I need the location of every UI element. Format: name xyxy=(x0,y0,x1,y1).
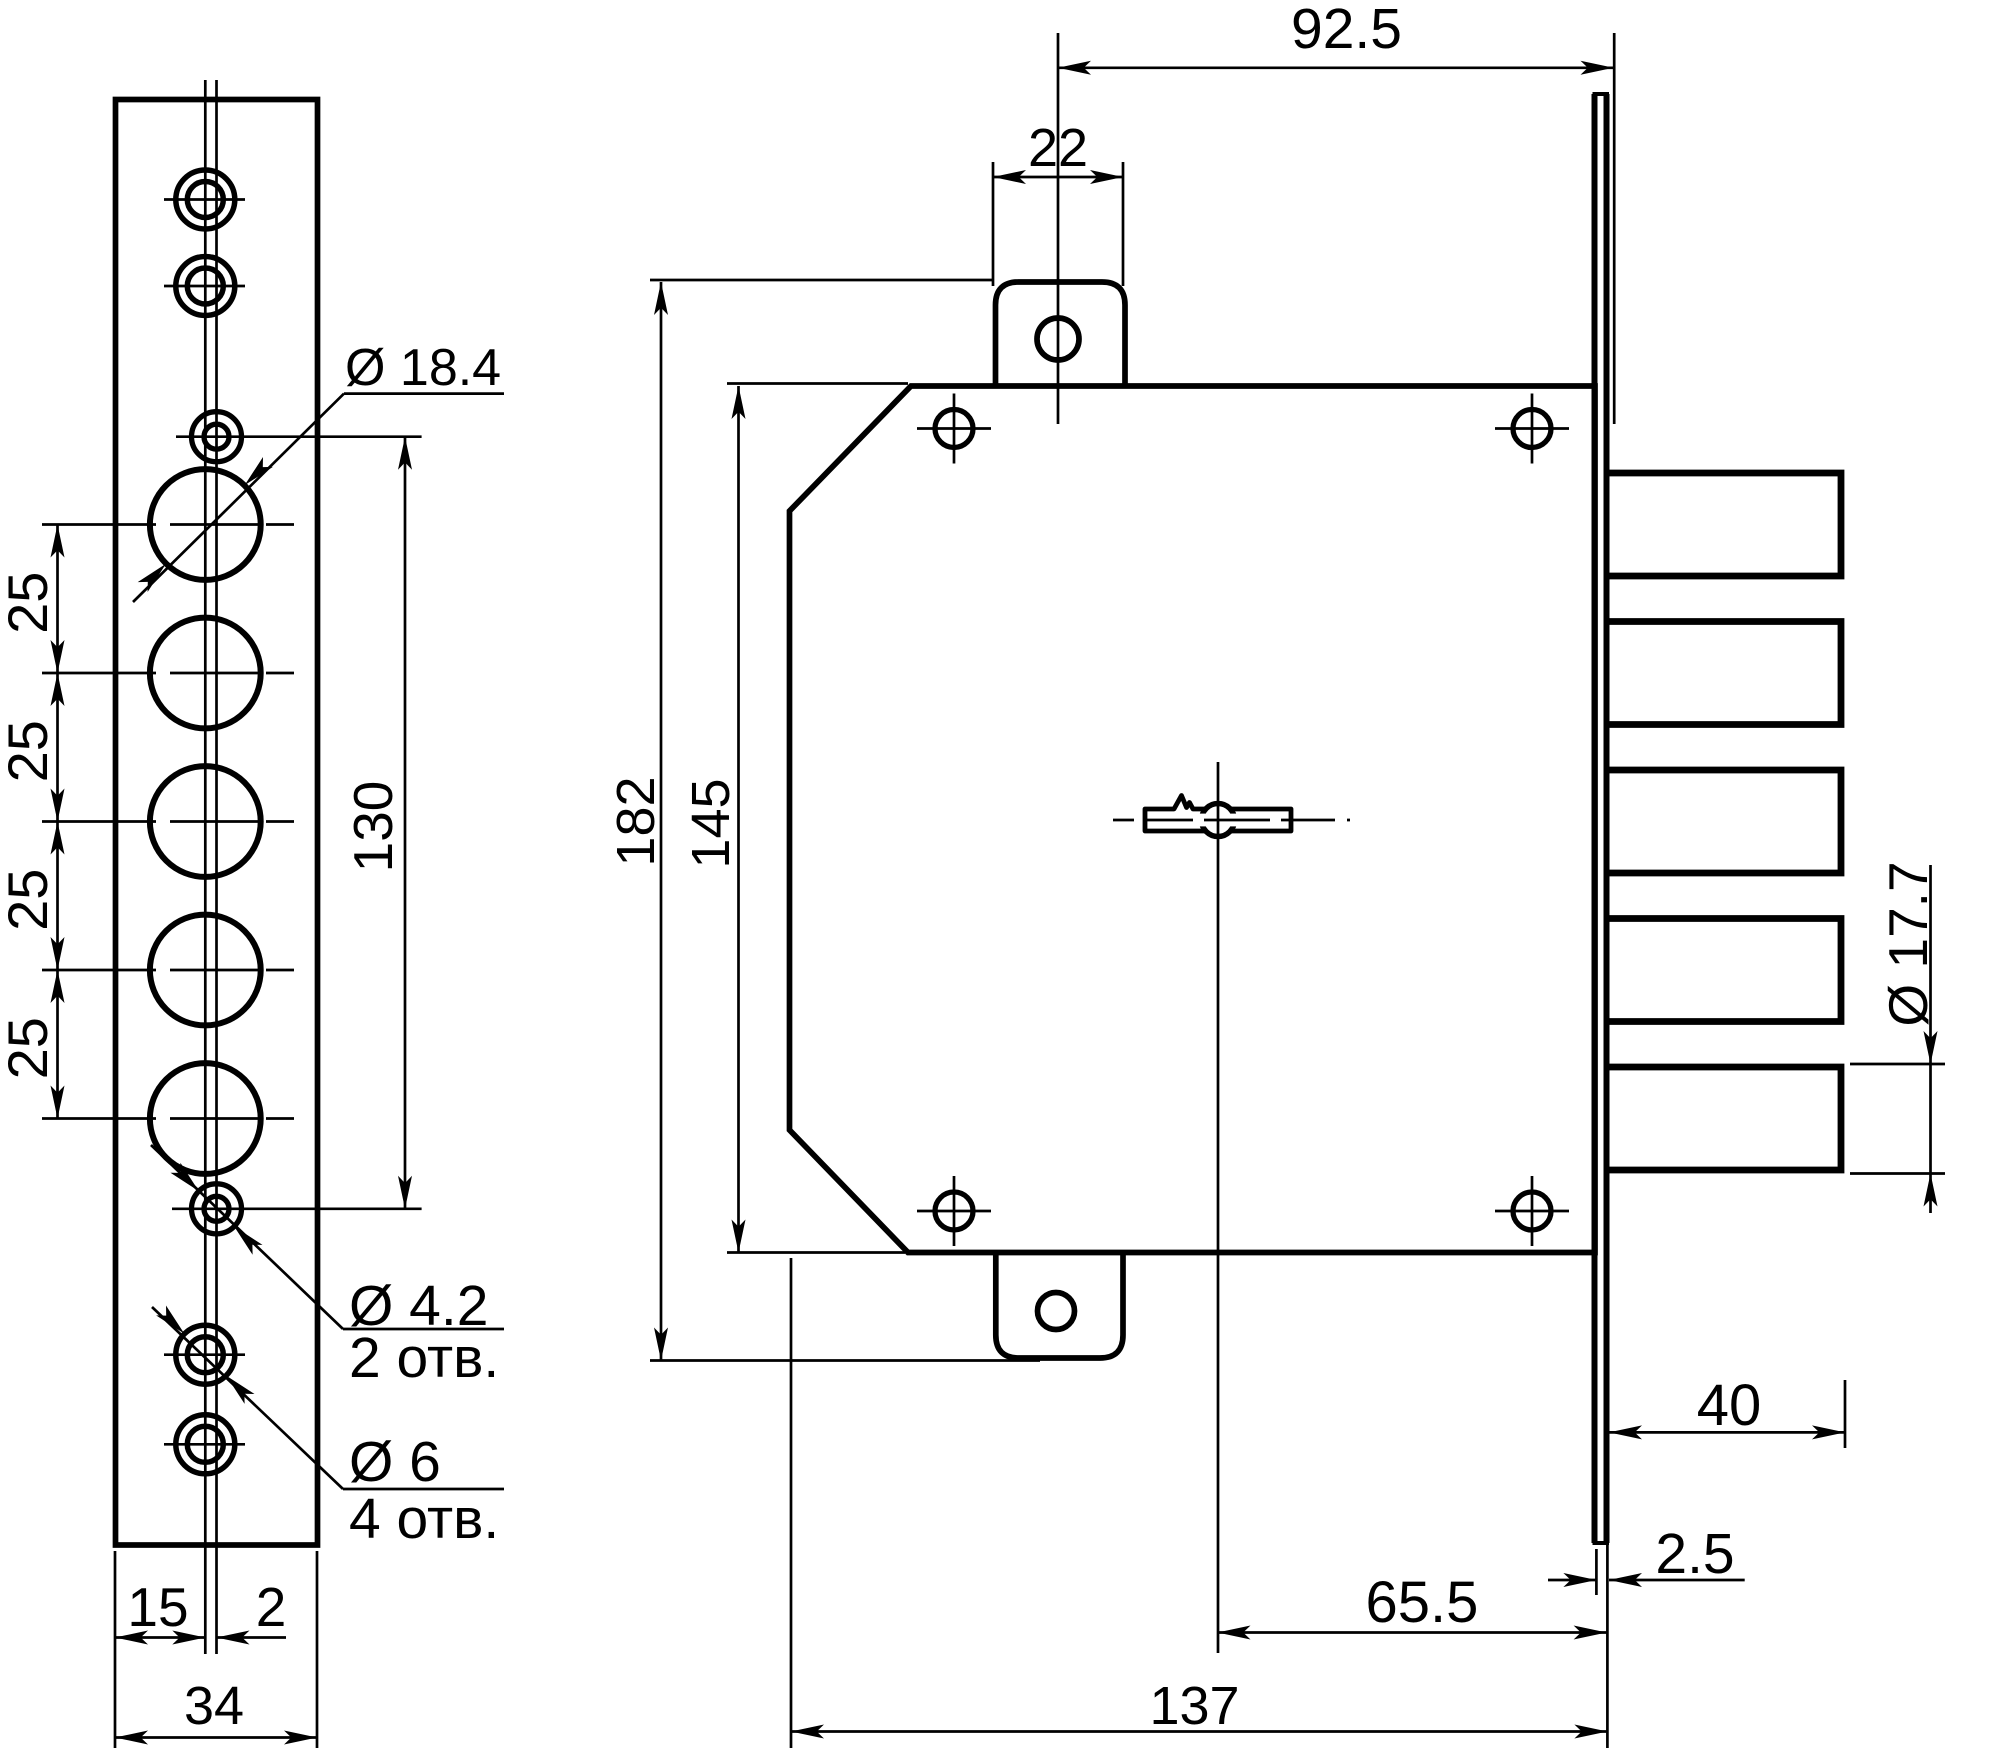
keyhole slot band through circle xyxy=(1196,814,1240,827)
deadbolt #3 xyxy=(1609,770,1841,873)
dim 22 line xyxy=(993,176,1123,179)
bottom mounting tab xyxy=(996,1253,1123,1359)
svg-text:92.5: 92.5 xyxy=(1291,0,1402,61)
svg-text:Ø 17.7: Ø 17.7 xyxy=(1877,861,1939,1026)
top tab hole xyxy=(1037,318,1079,360)
dim 145 arrows xyxy=(732,386,746,419)
hole O6 #4 center tick xyxy=(164,1443,245,1446)
dim O17.7 arrows xyxy=(1924,1031,1938,1064)
dim 22 ext lines xyxy=(992,162,995,286)
dim 15 arrows xyxy=(115,1631,148,1645)
svg-text:Ø 6: Ø 6 xyxy=(349,1430,441,1494)
svg-text:25: 25 xyxy=(0,869,59,931)
screw hole cross #4 xyxy=(1495,1210,1569,1213)
dim 2.5 arrows and tails xyxy=(1548,1579,1596,1582)
dim 22 arrows xyxy=(993,170,1026,184)
bolt hole O18.4 #2 xyxy=(150,618,261,729)
svg-text:22: 22 xyxy=(1028,118,1088,178)
screw hole cross #2 xyxy=(1495,427,1569,430)
faceplate strip right edge xyxy=(1604,94,1610,1543)
hole O6 #1 inner circle xyxy=(187,182,223,218)
dim 34 line xyxy=(115,1736,317,1739)
hole O6 #3 countersink outer circle xyxy=(176,1325,235,1384)
leader O4.2 arrows xyxy=(171,1163,199,1191)
dim 182 line xyxy=(660,282,663,1361)
svg-text:2: 2 xyxy=(256,1576,287,1638)
screw hole circle #2 xyxy=(1513,410,1551,448)
svg-text:2 отв.: 2 отв. xyxy=(349,1326,499,1390)
keyhole circle xyxy=(1202,804,1235,837)
dim 65.5 line xyxy=(1218,1631,1607,1634)
leader O18.4 arrows xyxy=(245,457,273,485)
svg-text:182: 182 xyxy=(606,776,666,866)
svg-text:2.5: 2.5 xyxy=(1655,1522,1734,1586)
top mounting tab xyxy=(996,282,1126,386)
deadbolt #5 xyxy=(1609,1067,1841,1170)
hole O6 #4 inner circle xyxy=(187,1426,223,1462)
svg-text:145: 145 xyxy=(681,778,741,868)
keyhole vertical axis line xyxy=(1217,762,1220,1653)
bolt hole #5 center dash-dot line xyxy=(42,1117,294,1120)
dim O17.7 ext lines xyxy=(1850,1063,1945,1066)
svg-text:65.5: 65.5 xyxy=(1366,1570,1479,1635)
hole O6 #2 center tick xyxy=(164,285,245,288)
dim 137 left ext line xyxy=(790,1258,793,1748)
dim 25 chain line xyxy=(56,525,59,1119)
bolt hole O18.4 #5 xyxy=(150,1063,261,1174)
hole O6 #3 inner circle xyxy=(187,1337,223,1373)
ext line left plate bottom xyxy=(114,1551,117,1748)
hole O6 #1 center tick xyxy=(164,198,245,201)
dim 130 line xyxy=(404,437,407,1209)
hole O6 #3 center tick xyxy=(164,1353,245,1356)
dim 92.5 right ext line xyxy=(1613,33,1616,424)
screw hole circle #3 xyxy=(935,1192,973,1230)
svg-text:40: 40 xyxy=(1697,1373,1762,1438)
hole O6 #2 inner circle xyxy=(187,268,223,304)
dim 65.5 arrows xyxy=(1218,1626,1251,1640)
dim 2.5 right ext line xyxy=(1606,1543,1609,1748)
left view: bolt-holes axis line (15 mm from edge) xyxy=(204,80,207,1654)
dim 92.5 arrows xyxy=(1058,61,1091,75)
dim 137 line xyxy=(791,1730,1607,1733)
label O4.2 underline xyxy=(343,1328,504,1331)
screw hole circle #1 xyxy=(935,410,973,448)
leader O6 line xyxy=(152,1307,343,1489)
faceplate strip top cap xyxy=(1593,92,1610,96)
label O18.4 underline xyxy=(344,392,504,395)
dim 15 line xyxy=(115,1636,205,1639)
dim 40 ext line xyxy=(1844,1380,1847,1448)
keyhole horizontal dash-dot line xyxy=(1113,819,1350,822)
leader O18.4 diameter line xyxy=(133,394,344,602)
bolt hole O18.4 #3 xyxy=(150,766,261,877)
hole O4.2 #2 countersink outer circle xyxy=(192,1184,242,1234)
hole O6 #4 countersink outer circle xyxy=(176,1415,235,1474)
dim 130 arrows xyxy=(398,437,412,470)
hole O4.2 #2 center line (extension for 130 dim) xyxy=(172,1207,422,1210)
svg-text:4 отв.: 4 отв. xyxy=(349,1487,499,1551)
screw hole cross #1 xyxy=(917,427,991,430)
screw hole circle #4 xyxy=(1513,1192,1551,1230)
screw hole cross #3 xyxy=(917,1210,991,1213)
bolt hole #1 center dash-dot line xyxy=(42,523,294,526)
hole O6 #1 countersink outer circle xyxy=(176,170,235,229)
left view: faceplate strip outline xyxy=(116,100,318,1546)
bolt hole #3 center dash-dot line xyxy=(42,820,294,823)
bottom tab hole xyxy=(1038,1293,1075,1330)
dim 145 ext lines xyxy=(727,382,908,385)
dim 182 ext lines xyxy=(650,279,993,282)
dim O17.7 line xyxy=(1929,865,1932,1213)
dim 182 arrows xyxy=(654,282,668,315)
hole O4.2 #1 center line (extension for 130 dim) xyxy=(176,435,422,438)
svg-text:Ø 18.4: Ø 18.4 xyxy=(345,339,501,397)
dim 92.5 line xyxy=(1058,66,1614,69)
bolt hole #4 center dash-dot line xyxy=(42,969,294,972)
leader O6 arrows xyxy=(156,1306,184,1334)
keyhole bar xyxy=(1145,796,1291,832)
hole O4.2 #2 inner circle xyxy=(204,1196,229,1221)
ext line right plate bottom xyxy=(316,1551,319,1748)
dim 40 line xyxy=(1609,1431,1845,1434)
svg-text:25: 25 xyxy=(0,720,59,782)
top tab hole axis / 92.5 ext line xyxy=(1057,33,1060,424)
svg-text:25: 25 xyxy=(0,572,59,634)
bolt hole O18.4 #1 xyxy=(150,469,261,580)
svg-text:25: 25 xyxy=(0,1017,59,1079)
dim 34 arrows xyxy=(115,1731,148,1745)
label O6 underline xyxy=(343,1488,504,1491)
dim 137 arrows xyxy=(791,1725,824,1739)
bolt hole O18.4 #4 xyxy=(150,915,261,1026)
leader O4.2 line xyxy=(151,1145,343,1329)
svg-text:137: 137 xyxy=(1149,1676,1239,1736)
hole O4.2 #1 countersink outer circle xyxy=(192,412,242,462)
lock body outline xyxy=(790,386,1596,1253)
svg-text:34: 34 xyxy=(184,1676,244,1736)
deadbolt #2 xyxy=(1609,622,1841,725)
left view: plate centerline xyxy=(215,80,218,1654)
dim 2.5 left ext line xyxy=(1595,1549,1598,1595)
faceplate strip bottom cap xyxy=(1593,1541,1610,1545)
hole O4.2 #1 inner circle xyxy=(204,424,229,449)
dim 40 arrows xyxy=(1609,1425,1642,1439)
faceplate strip left edge xyxy=(1592,94,1598,1543)
deadbolt #1 xyxy=(1609,473,1841,576)
bolt hole #2 center dash-dot line xyxy=(42,672,294,675)
dim 2 line with arrow xyxy=(217,1636,287,1639)
deadbolt #4 xyxy=(1609,919,1841,1022)
svg-text:15: 15 xyxy=(127,1576,188,1638)
dim 145 line xyxy=(737,386,740,1253)
hole O6 #2 countersink outer circle xyxy=(176,257,235,316)
svg-text:130: 130 xyxy=(342,781,404,873)
dim 25 arrowheads xyxy=(51,525,65,558)
